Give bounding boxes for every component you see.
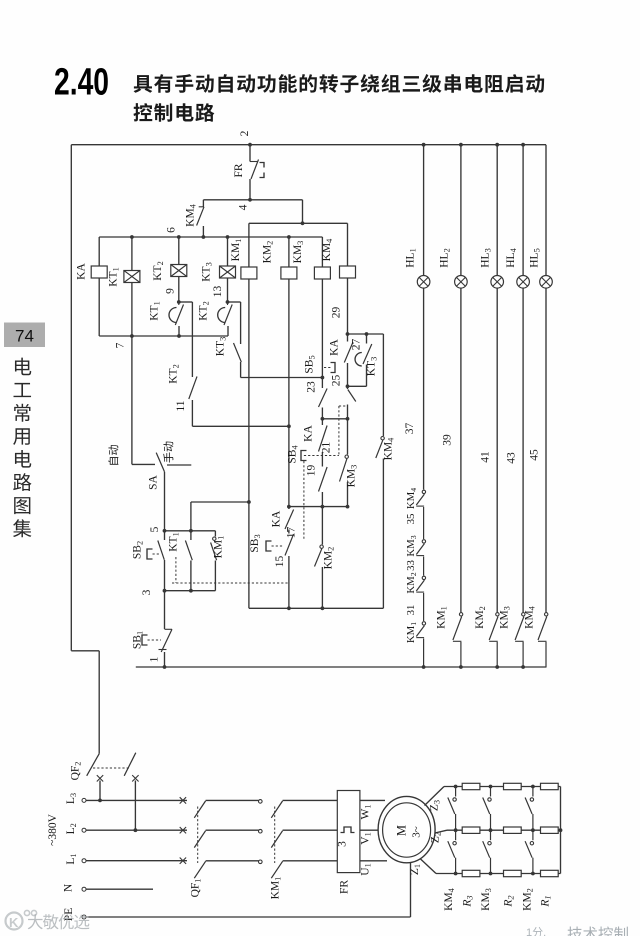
junction right rail row2	[559, 828, 563, 832]
junction chain506 right	[346, 505, 350, 509]
label manual	[163, 442, 173, 463]
svg-text:39: 39	[442, 434, 454, 446]
junction latch KM1 chain	[247, 500, 251, 504]
junction KM4 on bus 6	[202, 235, 206, 239]
contact KA 17	[288, 507, 290, 509]
contactor KM1 pole fixed	[259, 860, 263, 864]
wire KA to bus7	[98, 278, 100, 336]
junction node 2	[248, 143, 252, 147]
time relay coil KT1	[124, 271, 140, 283]
svg-text:KA: KA	[76, 263, 88, 280]
junction top rail HL3	[495, 143, 499, 147]
svg-text:3~: 3~	[411, 826, 423, 838]
wire pair top bar	[348, 333, 384, 335]
wire KT1 to bus7	[131, 283, 133, 337]
junction rotor x490 y873	[489, 872, 493, 876]
indicator lamp HL4	[517, 276, 530, 289]
wire rotor row2	[447, 829, 561, 831]
svg-text:1分.: 1分.	[526, 926, 546, 936]
pushbutton SB3 contact	[285, 534, 294, 556]
contact KM2 lamp chain	[422, 576, 425, 579]
wire KM3 coil drop	[321, 237, 323, 267]
junction rotor x532 y786	[531, 785, 535, 789]
junction KM3 chain 506	[321, 505, 325, 509]
svg-text:41: 41	[480, 451, 492, 463]
contactor coil KM4	[340, 266, 356, 278]
pushbutton SB4 cap	[301, 451, 307, 461]
junction node11 KM2 chain	[287, 424, 291, 428]
wire node 11 horizontal	[192, 425, 289, 427]
wire rail 608	[249, 607, 384, 609]
wire node 23 horizontal	[241, 377, 323, 379]
svg-text:74: 74	[15, 327, 34, 346]
contact KM2 rotor lower	[532, 830, 534, 840]
wire pair bottom bar	[348, 385, 367, 387]
terminal L1	[82, 859, 86, 863]
FR heater element	[341, 827, 355, 833]
thermal relay FR box	[337, 791, 360, 873]
junction rail1 HL4	[521, 665, 525, 669]
contact KM4 aux	[381, 437, 384, 440]
sidebar book title 电工常用电路图集	[15, 358, 31, 376]
svg-text:5: 5	[149, 526, 161, 532]
title line 2	[134, 103, 215, 122]
wire KT2 to node 9	[178, 277, 180, 303]
wire KT3 to node 13	[227, 278, 229, 302]
junction rotor x455 y830	[454, 828, 458, 832]
svg-text:43: 43	[506, 452, 518, 464]
svg-text:~380V: ~380V	[47, 813, 59, 845]
wire rotor right rail	[560, 787, 562, 874]
indicator lamp HL1	[417, 276, 430, 289]
junction rotor x532 y830	[531, 828, 535, 832]
svg-text:2: 2	[239, 130, 251, 136]
svg-text:33: 33	[405, 560, 417, 571]
pushbutton SB4 contact	[319, 467, 328, 492]
svg-text:M: M	[395, 825, 409, 836]
junction rotor x455 y873	[454, 872, 458, 876]
wire HL5 upper	[545, 145, 547, 276]
wire node 4 horizontal	[203, 199, 302, 201]
wire HL2 upper	[460, 145, 462, 276]
junction node3 kt1	[189, 589, 193, 593]
junction KM2 chain 506	[287, 505, 291, 509]
wire HL2 mid	[460, 288, 462, 612]
contactor KM1 link	[274, 807, 276, 864]
contactor coil KM2	[281, 267, 297, 279]
wire node 3 bar	[165, 590, 216, 592]
contact KM3 interlock	[347, 419, 349, 455]
watermark bottom left logo	[6, 910, 37, 930]
svg-text:15: 15	[274, 556, 286, 568]
svg-text:1: 1	[149, 656, 161, 662]
junction node 4	[248, 198, 252, 202]
junction node 1	[163, 665, 167, 669]
svg-text:29: 29	[331, 307, 343, 319]
watermark bottom left text	[28, 914, 90, 929]
wire KA drop	[98, 237, 100, 266]
junction rail1 HL1	[422, 665, 426, 669]
wire KT3 drop	[227, 237, 229, 266]
wire bus node 6	[99, 236, 322, 238]
breaker QF1 pole	[194, 801, 205, 818]
junction node3 sb1	[163, 589, 167, 593]
watermark bottom right text	[568, 926, 628, 936]
svg-text:N: N	[63, 883, 75, 892]
wire L1	[86, 860, 187, 862]
wire left rail jog	[71, 650, 99, 652]
time relay coil KT2	[171, 265, 187, 277]
svg-text:31: 31	[405, 605, 417, 616]
junction QF2 L2	[134, 828, 138, 832]
wire KM4 chain 29	[347, 278, 349, 334]
svg-text:K: K	[9, 915, 19, 930]
wire HL4 mid	[522, 288, 524, 612]
wire HL3 upper	[496, 145, 498, 276]
pushbutton SB1 cap	[142, 635, 148, 645]
wire FR W1	[360, 799, 385, 801]
indicator lamp HL3	[491, 276, 504, 289]
contact KM4 seal-in	[202, 200, 204, 207]
wire FR U1	[360, 860, 387, 862]
contact KT2 instant	[189, 377, 197, 400]
terminal L3	[82, 798, 86, 802]
svg-text:9: 9	[165, 288, 177, 294]
junction rail1 HL3	[495, 665, 499, 669]
svg-text:6: 6	[166, 227, 178, 233]
contact KM3 rotor upper	[490, 787, 492, 797]
junction rotor x532 y873	[531, 872, 535, 876]
delayed contact KT3 27	[366, 334, 368, 344]
breaker QF1 pole	[194, 831, 205, 848]
contact KM1 lamp chain	[422, 622, 425, 625]
wire rotor row1	[444, 786, 561, 788]
contact KM4 lamp chain	[422, 490, 425, 493]
svg-text:45: 45	[529, 449, 541, 461]
wire bottom rail node 1	[136, 666, 547, 668]
contact KT3 instant	[233, 343, 240, 346]
contact KM2 rotor upper	[532, 787, 534, 797]
wire HL1 upper	[423, 145, 425, 276]
junction KT3 bus	[226, 235, 230, 239]
svg-text:KA: KA	[271, 510, 283, 527]
contact below 25	[347, 386, 349, 389]
svg-text:21: 21	[321, 442, 333, 454]
resistor R2 row2	[504, 827, 522, 833]
contact KM2 lamp	[496, 613, 499, 616]
wire KM1 coil drop	[248, 223, 250, 267]
pushbutton SB3 cap	[266, 541, 272, 551]
wire motor Z2	[435, 830, 447, 833]
junction rail608 KM2	[287, 606, 291, 610]
junction pair top right	[365, 332, 369, 336]
wire KT1 drop	[131, 237, 133, 271]
wire HL4 upper	[522, 145, 524, 276]
junction node 25	[346, 384, 350, 388]
resistor R2 row3	[504, 870, 522, 876]
contactor KM1 pole	[271, 861, 282, 878]
junction node5 sb2	[163, 529, 167, 533]
svg-text:35: 35	[405, 514, 417, 525]
wire bar 419	[322, 418, 347, 420]
motor M inner	[383, 803, 431, 857]
svg-text:7: 7	[115, 342, 127, 348]
contactor KM1 pole	[271, 801, 282, 818]
junction KT2 bus	[177, 235, 181, 239]
wire FR to node 4	[249, 179, 251, 200]
mech link SB2	[175, 557, 177, 583]
wire N	[86, 888, 153, 890]
sidebar page number box	[4, 323, 45, 348]
wire KM1 chain	[248, 279, 250, 608]
pushbutton SB2	[164, 531, 166, 540]
breaker QF2 pole 1	[87, 754, 100, 776]
terminal L2	[82, 828, 86, 832]
wire node9 branch	[179, 301, 193, 303]
junction node23	[321, 376, 325, 380]
motor M outer	[378, 796, 435, 862]
junction top rail HL1	[422, 143, 426, 147]
delayed contact KT1	[178, 302, 180, 305]
junction node 9	[177, 300, 181, 304]
wire KM3 chain upper	[321, 279, 323, 378]
wire KT2 drop	[178, 237, 180, 265]
contact KM4 lamp	[545, 613, 548, 616]
indicator lamp HL5	[540, 276, 553, 289]
svg-text:3: 3	[337, 841, 349, 847]
time relay coil KT3	[220, 266, 236, 278]
wire KM2 chain upper	[288, 279, 290, 507]
junction rotor x455 y786	[454, 785, 458, 789]
svg-text:37: 37	[404, 423, 416, 435]
switch SA fixed manual	[167, 464, 191, 466]
wire node 5 bar	[165, 530, 216, 532]
wire rotor row3	[436, 873, 561, 875]
wire KM1 latch tap	[191, 501, 249, 503]
breaker QF2 link	[93, 767, 131, 769]
contact KM3 rotor lower	[490, 830, 492, 840]
pushbutton SB5 contact	[321, 378, 323, 389]
junction rotor x490 y786	[489, 785, 493, 789]
junction KM2 bus	[287, 235, 291, 239]
svg-text:2.40: 2.40	[54, 62, 109, 104]
wire motor PE	[410, 862, 412, 917]
resistor R1 row1	[541, 783, 559, 789]
wire HL1 mid	[423, 288, 425, 489]
label auto	[108, 445, 118, 465]
wire left rail	[70, 145, 72, 651]
resistor R2 row1	[504, 783, 522, 789]
junction QF2 L3	[98, 799, 102, 803]
contactor coil KM3	[314, 267, 330, 279]
terminal N	[82, 887, 86, 891]
contactor KM1 pole fixed	[259, 800, 263, 804]
resistor R3 row1	[462, 783, 480, 789]
svg-text:3: 3	[141, 589, 153, 595]
junction KT1 bus7	[177, 334, 181, 338]
svg-text:KA: KA	[329, 339, 341, 356]
svg-text:SA: SA	[148, 474, 160, 489]
wire bar 506	[289, 506, 348, 508]
contactor KM1 pole	[271, 831, 282, 848]
resistor R3 row2	[462, 827, 480, 833]
contact KA 21	[321, 419, 323, 425]
junction node5 kt1	[189, 529, 193, 533]
terminal PE	[82, 915, 86, 919]
svg-text:23: 23	[306, 381, 318, 393]
wire bus node 7	[99, 335, 228, 337]
contact KT1 parallel	[190, 531, 192, 540]
svg-text:FR: FR	[339, 880, 351, 894]
wire HL3 mid	[496, 288, 498, 612]
junction KT1 bus	[130, 235, 134, 239]
wire SA common	[164, 472, 166, 531]
wire node4 to KM coil feed	[302, 200, 304, 224]
wire top rail node 2	[71, 144, 546, 146]
svg-text:11: 11	[175, 400, 187, 411]
wire SB1 feed	[164, 591, 166, 629]
pushbutton SB5 cap	[331, 363, 336, 373]
delayed contact KT2	[227, 302, 229, 305]
indicator lamp HL2	[455, 276, 468, 289]
svg-text:17: 17	[286, 527, 298, 539]
switch SA fixed auto	[132, 463, 155, 465]
pushbutton SB2 cap	[147, 549, 153, 559]
title line 1	[134, 74, 545, 93]
contact KM1 lamp	[459, 613, 462, 616]
svg-text:13: 13	[212, 286, 224, 298]
wire motor Z1	[420, 859, 436, 874]
svg-text:27: 27	[351, 339, 363, 351]
junction top rail HL4	[521, 143, 525, 147]
svg-text:25: 25	[331, 375, 343, 387]
contact KM3 lamp	[522, 613, 525, 616]
wire KM4 branch top	[382, 334, 384, 436]
wire FR V1	[360, 829, 379, 831]
wire FR drop	[249, 145, 251, 162]
wire SA feed	[131, 336, 133, 464]
switch SA blade	[156, 453, 164, 472]
junction rotor x490 y830	[489, 828, 493, 832]
contactor coil KM1	[241, 267, 257, 279]
wire KM2 coil drop	[288, 237, 290, 267]
svg-text:KA: KA	[303, 425, 315, 442]
svg-text:19: 19	[306, 465, 318, 477]
junction SA bus7	[130, 334, 134, 338]
breaker QF2 pole 2	[124, 753, 136, 776]
relay coil KA	[91, 266, 107, 278]
contact KM2 interlock	[321, 507, 323, 545]
junction top rail HL2	[459, 143, 463, 147]
contact KA 25	[347, 334, 349, 342]
wire KM4 coil drop	[347, 223, 349, 266]
contact KM4 rotor lower	[455, 830, 457, 840]
wire L3	[86, 799, 187, 801]
wire HL5 mid	[545, 288, 547, 612]
breaker QF1 link	[197, 807, 199, 864]
wire L2	[86, 829, 187, 831]
breaker QF1 pole	[194, 861, 205, 878]
svg-text:FR: FR	[233, 163, 245, 177]
contact KM4 rotor upper	[455, 787, 457, 797]
pushbutton SB1 NC	[165, 628, 173, 630]
wire KM coil feed line	[249, 222, 348, 224]
resistor R1 row2	[541, 827, 559, 833]
wire PE	[86, 916, 411, 918]
resistor R3 row3	[462, 870, 480, 876]
contact KM1 parallel	[214, 531, 216, 537]
junction pair top	[346, 332, 350, 336]
thermal overload contact FR	[250, 161, 258, 163]
svg-text:4: 4	[238, 204, 250, 210]
contact KM3 lamp chain	[422, 540, 425, 543]
resistor R1 row3	[541, 870, 559, 876]
junction node 13	[226, 300, 230, 304]
mech link SB4 KA	[338, 406, 340, 456]
wire motor Z3	[425, 787, 445, 806]
junction rail608 KM3	[321, 606, 325, 610]
junction rail1 HL2	[459, 665, 463, 669]
contactor KM1 pole fixed	[259, 829, 263, 833]
wire node13 branch	[228, 301, 241, 303]
